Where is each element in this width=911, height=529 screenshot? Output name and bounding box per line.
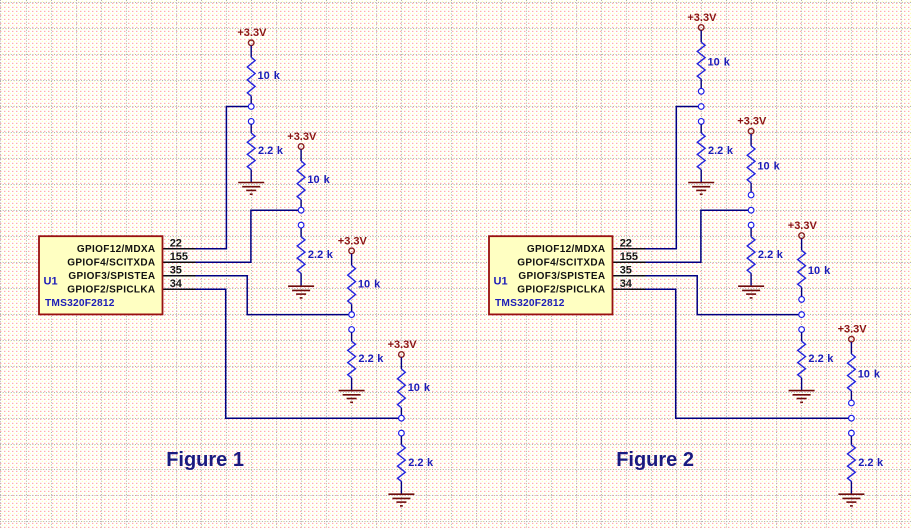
net label +3.3V (fig1 block 35) [338,235,368,247]
power +3.3V terminal (fig2 block 34) [849,336,855,342]
junction node at pin 35 net (fig2) [799,312,805,318]
svg-text:+3.3V: +3.3V [338,235,368,247]
svg-text:+3.3V: +3.3V [788,220,818,232]
pin name label GPIOF12/MDXA (fig2) [527,244,606,255]
IC U1 TMS320F2812 body (fig1) [39,236,163,314]
svg-text:GPIOF2/SPICLKA: GPIOF2/SPICLKA [517,285,605,296]
resistor 2.2 k pull-down (fig1 block 22) [247,124,255,182]
pin 34 stub (fig1) [163,288,196,290]
value label 10 k (fig1 block 155) [307,174,330,186]
svg-text:155: 155 [620,251,638,263]
junction node at pin 22 net (fig1) [248,104,254,110]
svg-text:35: 35 [620,265,632,277]
svg-text:34: 34 [170,278,183,290]
wire pin 22 to pullup junction (fig2) [613,107,702,249]
net label +3.3V (fig1 block 34) [388,339,418,351]
open pin end of 2.2 k resistor (fig2 block 155) [748,222,754,228]
pin 22 stub (fig2) [613,248,646,250]
ground (fig1 block 35) [339,391,365,403]
resistor 2.2 k pull-down (fig2 block 22) [697,124,705,182]
svg-text:10 k: 10 k [808,265,831,277]
pin number 155 (fig2) [620,251,638,263]
pin name label GPIOF4/SCITXDA (fig1) [67,258,155,269]
svg-text:2.2 k: 2.2 k [308,249,334,261]
value label 10 k (fig2 block 34) [858,368,881,380]
svg-text:GPIOF3/SPISTEA: GPIOF3/SPISTEA [518,271,605,282]
ground (fig2 block 35) [789,391,815,403]
svg-text:2.2 k: 2.2 k [258,145,284,157]
open pin end of 2.2 k resistor (fig1 block 34) [399,430,405,436]
svg-text:10 k: 10 k [307,174,330,186]
wire pin 35 to pullup junction (fig2) [613,276,802,315]
svg-text:U1: U1 [494,275,508,287]
power +3.3V terminal (fig2 block 35) [799,233,805,239]
open pin end of 2.2 k resistor (fig1 block 35) [349,327,355,333]
pin name label GPIOF4/SCITXDA (fig2) [517,258,605,269]
junction node at pin 34 net (fig1) [399,415,405,421]
junction node at pin 155 net (fig1) [298,207,304,213]
power +3.3V terminal (fig1 block 35) [349,248,355,254]
svg-text:10 k: 10 k [757,160,780,172]
net label +3.3V (fig2 block 34) [838,324,868,336]
svg-text:10 k: 10 k [358,278,381,290]
pin 155 stub (fig2) [613,261,646,263]
resistor 2.2 k pull-down (fig2 block 155) [747,228,755,286]
resistor 2.2 k pull-down (fig1 block 34) [398,436,406,494]
value label 10 k (fig1 block 35) [358,278,381,290]
svg-text:2.2 k: 2.2 k [758,249,784,261]
value label 2.2 k (fig1 block 35) [358,353,384,365]
junction node at pin 155 net (fig2) [748,207,754,213]
power +3.3V terminal (fig1 block 34) [399,352,405,358]
resistor 10 k pull-up (fig1 block 34) [398,357,406,415]
resistor 10 k pull-up (fig2 block 35) [798,238,806,296]
svg-text:35: 35 [170,265,182,277]
wire pin 34 to pullup junction (fig1) [163,289,402,418]
resistor 2.2 k pull-down (fig2 block 34) [848,436,856,494]
ground (fig1 block 34) [388,494,414,506]
value label 10 k (fig2 block 35) [808,265,831,277]
pin number 155 (fig1) [170,251,188,263]
pin number 34 (fig2) [620,278,633,290]
open pin end of 10 k resistor (fig2 block 34) [849,400,855,406]
net label +3.3V (fig1 block 155) [287,131,317,143]
pin name label GPIOF2/SPICLKA (fig2) [517,285,605,296]
caption Figure 2 [616,449,694,471]
svg-text:10 k: 10 k [258,70,281,82]
pin number 34 (fig1) [170,278,183,290]
svg-text:GPIOF4/SCITXDA: GPIOF4/SCITXDA [67,258,155,269]
wire pin 155 to pullup junction (fig1) [163,210,302,262]
open pin end of 10 k resistor (fig2 block 22) [698,88,704,94]
value label 2.2 k (fig2 block 22) [708,145,734,157]
svg-text:10 k: 10 k [708,57,731,69]
svg-text:Figure 2: Figure 2 [616,449,694,471]
pin number 35 (fig2) [620,265,632,277]
part number TMS320F2812 (fig1) [45,298,115,309]
svg-text:+3.3V: +3.3V [237,27,267,39]
resistor 10 k pull-up (fig2 block 22) [697,30,705,88]
svg-text:2.2 k: 2.2 k [408,457,434,469]
net label +3.3V (fig2 block 35) [788,220,818,232]
open pin end of 2.2 k resistor (fig2 block 22) [698,119,704,125]
value label 2.2 k (fig2 block 155) [758,249,784,261]
svg-text:GPIOF2/SPICLKA: GPIOF2/SPICLKA [67,285,155,296]
svg-text:155: 155 [170,251,188,263]
svg-text:2.2 k: 2.2 k [708,145,734,157]
pin 34 stub (fig2) [613,288,646,290]
value label 10 k (fig1 block 22) [258,70,281,82]
open pin end of 2.2 k resistor (fig1 block 22) [248,119,254,125]
pin 155 stub (fig1) [163,261,196,263]
designator U1 (fig1) [44,275,58,287]
open pin end of 10 k resistor (fig2 block 155) [748,192,754,198]
svg-text:GPIOF12/MDXA: GPIOF12/MDXA [77,244,156,255]
junction node at pin 34 net (fig2) [849,415,855,421]
svg-text:TMS320F2812: TMS320F2812 [495,298,565,309]
resistor 2.2 k pull-down (fig1 block 35) [348,332,356,390]
resistor 2.2 k pull-down (fig2 block 35) [798,332,806,390]
svg-text:+3.3V: +3.3V [838,324,868,336]
ground (fig2 block 22) [688,183,714,195]
value label 10 k (fig1 block 34) [408,382,431,394]
resistor 10 k pull-up (fig1 block 22) [247,46,255,104]
designator U1 (fig2) [494,275,508,287]
net label +3.3V (fig2 block 22) [687,12,717,24]
svg-text:GPIOF12/MDXA: GPIOF12/MDXA [527,244,606,255]
ground (fig1 block 22) [238,183,264,195]
value label 10 k (fig2 block 155) [757,160,780,172]
pin number 22 (fig2) [620,238,632,250]
open pin end of 2.2 k resistor (fig1 block 155) [298,222,304,228]
value label 10 k (fig2 block 22) [708,57,731,69]
power +3.3V terminal (fig2 block 155) [748,128,754,134]
svg-text:22: 22 [170,238,182,250]
svg-text:2.2 k: 2.2 k [358,353,384,365]
ground (fig2 block 34) [838,494,864,506]
pin name label GPIOF3/SPISTEA (fig2) [518,271,605,282]
svg-text:+3.3V: +3.3V [737,116,767,128]
IC U1 TMS320F2812 body (fig2) [489,236,613,314]
open pin end of 2.2 k resistor (fig2 block 34) [849,430,855,436]
svg-text:TMS320F2812: TMS320F2812 [45,298,115,309]
net label +3.3V (fig1 block 22) [237,27,267,39]
value label 2.2 k (fig1 block 22) [258,145,284,157]
net label +3.3V (fig2 block 155) [737,116,767,128]
wire pin 155 to pullup junction (fig2) [613,210,752,262]
open pin end of 10 k resistor (fig2 block 35) [799,297,805,303]
svg-text:10 k: 10 k [858,368,881,380]
pin 22 stub (fig1) [163,248,196,250]
pin number 35 (fig1) [170,265,182,277]
svg-text:Figure 1: Figure 1 [166,449,244,471]
resistor 10 k pull-up (fig1 block 35) [348,254,356,312]
wire pin 35 to pullup junction (fig1) [163,276,352,315]
svg-text:34: 34 [620,278,633,290]
resistor 10 k pull-up (fig2 block 34) [848,342,856,400]
part number TMS320F2812 (fig2) [495,298,565,309]
pin number 22 (fig1) [170,238,182,250]
pin 35 stub (fig2) [613,275,646,277]
caption Figure 1 [166,449,244,471]
resistor 10 k pull-up (fig2 block 155) [747,134,755,192]
wire pin 34 to pullup junction (fig2) [613,289,852,418]
open pin end of 2.2 k resistor (fig2 block 35) [799,327,805,333]
junction node at pin 22 net (fig2) [698,104,704,110]
svg-text:+3.3V: +3.3V [687,12,717,24]
pin name label GPIOF12/MDXA (fig1) [77,244,156,255]
power +3.3V terminal (fig1 block 155) [298,144,304,150]
pin name label GPIOF2/SPICLKA (fig1) [67,285,155,296]
svg-text:GPIOF4/SCITXDA: GPIOF4/SCITXDA [517,258,605,269]
wire pin 22 to pullup junction (fig1) [163,107,252,249]
svg-text:+3.3V: +3.3V [388,339,418,351]
svg-text:10 k: 10 k [408,382,431,394]
svg-text:2.2 k: 2.2 k [808,353,834,365]
value label 2.2 k (fig1 block 34) [408,457,434,469]
svg-text:2.2 k: 2.2 k [858,457,884,469]
ground (fig2 block 155) [738,286,764,298]
svg-text:U1: U1 [44,275,58,287]
value label 2.2 k (fig1 block 155) [308,249,334,261]
pin 35 stub (fig1) [163,275,196,277]
power +3.3V terminal (fig2 block 22) [698,25,704,31]
value label 2.2 k (fig2 block 35) [808,353,834,365]
svg-text:GPIOF3/SPISTEA: GPIOF3/SPISTEA [68,271,155,282]
svg-text:22: 22 [620,238,632,250]
junction node at pin 35 net (fig1) [349,312,355,318]
resistor 2.2 k pull-down (fig1 block 155) [297,228,305,286]
svg-text:+3.3V: +3.3V [287,131,317,143]
ground (fig1 block 155) [288,286,314,298]
value label 2.2 k (fig2 block 34) [858,457,884,469]
pin name label GPIOF3/SPISTEA (fig1) [68,271,155,282]
resistor 10 k pull-up (fig1 block 155) [297,149,305,207]
power +3.3V terminal (fig1 block 22) [248,40,254,46]
